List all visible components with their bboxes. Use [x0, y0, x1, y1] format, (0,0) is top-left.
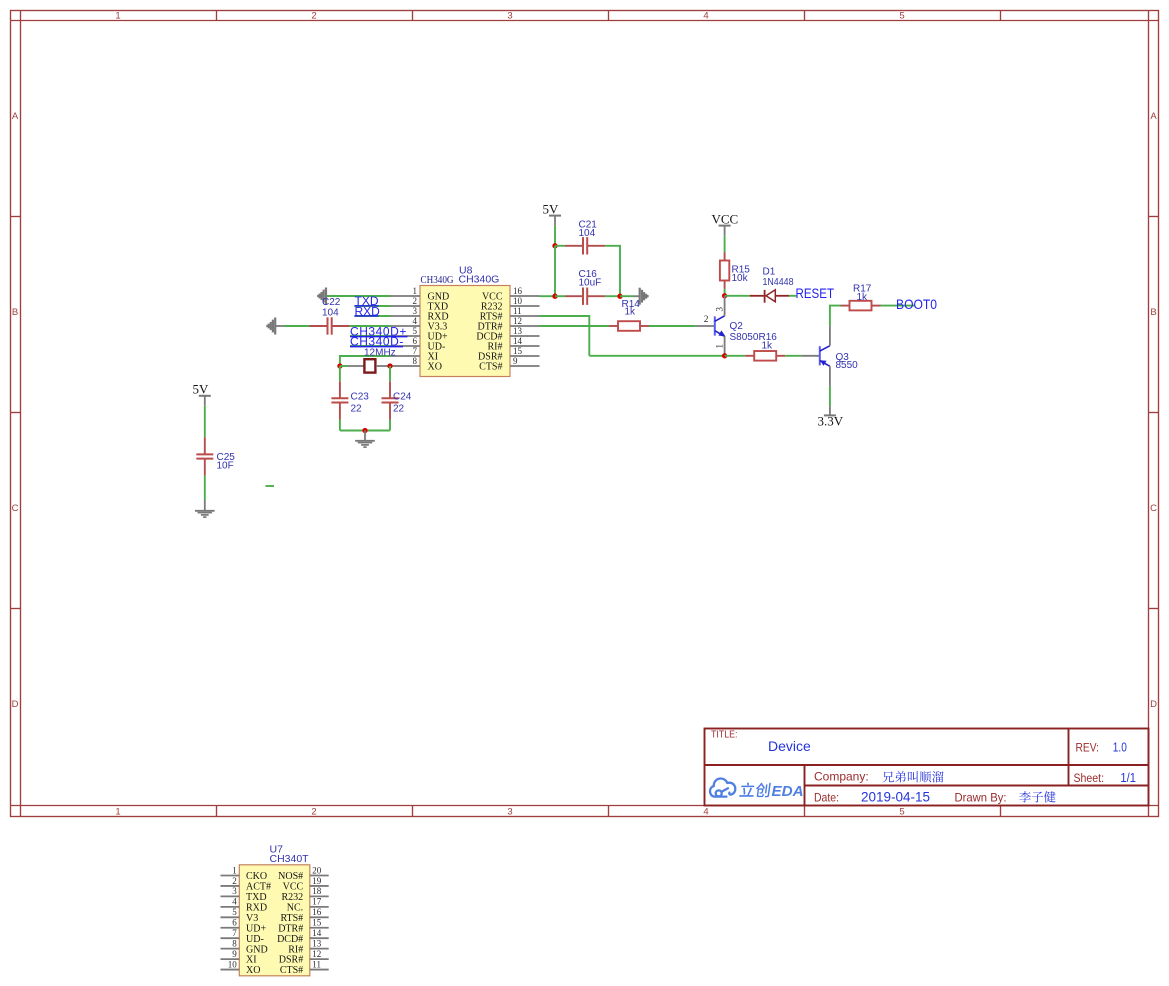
svg-text:XI: XI [246, 955, 257, 966]
wire crystal-left stub [340, 365, 348, 367]
svg-text:10F: 10F [217, 461, 234, 472]
wire C21 left [555, 245, 565, 247]
U7 pin 8 (GND) [221, 938, 268, 955]
svg-text:3: 3 [413, 306, 418, 316]
U8 pin 15 (DSR#) [478, 346, 539, 363]
svg-text:VCC: VCC [283, 882, 304, 893]
ground (C25) [195, 500, 215, 517]
svg-text:1: 1 [413, 286, 418, 296]
net label CH340D+ [350, 324, 408, 338]
wire pin7 XI to crystal-left node [340, 356, 391, 366]
svg-text:10: 10 [513, 296, 523, 306]
wire R15 to junction [724, 289, 726, 296]
wire C22 to pin4 [350, 325, 391, 327]
capacitor C24 [382, 381, 399, 419]
U7 pin 10 (XO) [221, 959, 261, 976]
svg-text:7: 7 [232, 928, 237, 938]
svg-text:10uF: 10uF [579, 278, 602, 289]
svg-text:RXD: RXD [246, 902, 267, 913]
U7 pin 2 (ACT#) [221, 876, 272, 893]
ground arrow (caps right) [634, 288, 648, 305]
svg-text:2: 2 [311, 10, 316, 21]
svg-text:UD-: UD- [246, 934, 264, 945]
wire CH340D- stub [350, 345, 391, 347]
svg-text:3: 3 [507, 806, 512, 817]
svg-text:DSR#: DSR# [279, 955, 303, 966]
IC U7 CH340T body [239, 865, 309, 976]
U7 pin 6 (UD+) [221, 918, 267, 935]
svg-text:17: 17 [312, 897, 322, 907]
ground arrow (C22 left) [267, 318, 284, 335]
resistor R15 [720, 252, 729, 289]
svg-text:2: 2 [311, 806, 316, 817]
capacitor C16 [565, 288, 605, 305]
svg-text:2: 2 [232, 876, 237, 886]
svg-text:Device: Device [768, 738, 811, 754]
wire pin1 GND net [326, 295, 391, 297]
svg-text:RTS#: RTS# [280, 913, 303, 924]
svg-text:5V: 5V [543, 202, 560, 217]
svg-text:CH340G: CH340G [421, 275, 454, 286]
wire C24 bottom [389, 420, 391, 431]
U7 pin 19 (VCC) [283, 876, 329, 893]
svg-text:CH340G: CH340G [459, 273, 500, 285]
wire C24 top [389, 366, 391, 381]
wire R14 to Q2 base [649, 325, 695, 327]
svg-text:XO: XO [246, 965, 260, 976]
U8 pin 11 (RTS#) [480, 306, 540, 323]
U7 pin 14 (DCD#) [277, 928, 329, 945]
svg-text:11: 11 [513, 306, 522, 316]
junction C16/C21 right [617, 294, 622, 299]
stray wire fragment [266, 485, 275, 487]
svg-text:1: 1 [115, 806, 120, 817]
svg-text:C: C [12, 503, 19, 514]
wire R17 to BOOT0 [881, 305, 915, 307]
svg-text:20: 20 [312, 865, 322, 875]
wire crystal ground rail [340, 430, 390, 432]
capacitor C25 [196, 437, 213, 475]
svg-text:16: 16 [513, 286, 523, 296]
svg-text:6: 6 [413, 336, 418, 346]
svg-text:2019-04-15: 2019-04-15 [861, 790, 930, 805]
resistor R16 [745, 351, 785, 361]
svg-text:TXD: TXD [246, 892, 267, 903]
svg-text:10: 10 [228, 959, 238, 969]
svg-text:4: 4 [703, 806, 708, 817]
wire RXD stub [355, 315, 391, 317]
svg-text:1: 1 [115, 10, 120, 21]
junction crystal-right (pin8 XO) [387, 363, 392, 368]
svg-text:1k: 1k [857, 292, 869, 303]
U7 pin 15 (DTR#) [278, 918, 329, 935]
logo text 立创EDA [739, 783, 755, 797]
svg-text:EDA: EDA [772, 783, 804, 800]
U7 pin 17 (NC.) [287, 897, 329, 914]
wire TXD stub [355, 305, 391, 307]
svg-text:2: 2 [413, 296, 418, 306]
capacitor C21 [565, 237, 605, 254]
svg-text:5: 5 [413, 326, 418, 336]
svg-text:CH340T: CH340T [270, 853, 310, 865]
svg-text:5V: 5V [193, 382, 210, 397]
junction 5V / C21 [552, 243, 557, 248]
svg-text:DCD#: DCD# [277, 934, 303, 945]
svg-text:D: D [1150, 699, 1157, 710]
junction Q2 emitter [722, 353, 727, 358]
wire pin12 DTR# to R14 [540, 325, 610, 327]
U7 pin 13 (RI#) [288, 938, 329, 955]
wire D1 to RESET [789, 295, 796, 297]
wire R16 to Q3 base [785, 355, 801, 357]
svg-text:XO: XO [428, 362, 442, 373]
title block [705, 729, 1149, 806]
svg-text:CKO: CKO [246, 871, 267, 882]
svg-text:A: A [12, 111, 19, 122]
wire 5V node down to VCC rail [554, 246, 556, 296]
svg-text:CTS#: CTS# [280, 965, 303, 976]
svg-text:12MHz: 12MHz [364, 347, 396, 358]
svg-text:104: 104 [579, 228, 596, 239]
diode D1 1N4448 [750, 290, 789, 303]
svg-text:14: 14 [513, 336, 523, 346]
svg-text:7: 7 [413, 346, 418, 356]
svg-text:C: C [1150, 503, 1157, 514]
U8 pin 4 (V3.3) [391, 316, 448, 333]
svg-text:1: 1 [232, 865, 237, 875]
svg-text:12: 12 [312, 949, 321, 959]
U8 pin 10 (R232) [481, 296, 540, 313]
svg-text:GND: GND [246, 944, 268, 955]
svg-text:9: 9 [513, 356, 518, 366]
svg-text:NC.: NC. [287, 902, 303, 913]
wire emitter rail [589, 355, 724, 357]
ground arrow (pin1 GND) [318, 288, 326, 305]
wire pin16 VCC to 5V node [540, 295, 556, 297]
svg-text:UD+: UD+ [246, 923, 266, 934]
U7 pin 1 (CKO) [221, 865, 268, 882]
svg-text:TITLE:: TITLE: [711, 730, 738, 741]
svg-text:RESET: RESET [796, 285, 835, 301]
svg-text:12: 12 [513, 316, 522, 326]
wire pin11 RTS# down to emitter rail [540, 316, 590, 356]
junction R15/D1/Q2 [722, 293, 727, 298]
svg-text:BOOT0: BOOT0 [896, 296, 937, 312]
svg-text:13: 13 [312, 938, 322, 948]
U7 pin 18 (R232) [282, 886, 329, 903]
U8 pin 16 (VCC) [482, 286, 540, 303]
svg-text:4: 4 [413, 316, 418, 326]
svg-text:Q2: Q2 [730, 321, 744, 332]
junction crystal-left [337, 363, 342, 368]
svg-text:2: 2 [704, 315, 709, 325]
wire 5V down to C21 node [554, 226, 556, 246]
U8 pin 7 (XI) [391, 346, 439, 363]
U7 pin 16 (RTS#) [280, 907, 328, 924]
svg-text:A: A [1150, 111, 1157, 122]
resistor R14 [609, 321, 649, 331]
transistor Q2 S8050 [695, 296, 725, 356]
svg-text:13: 13 [513, 326, 523, 336]
ground (crystal) [355, 431, 375, 448]
U8 pin 13 (DCD#) [476, 326, 539, 343]
svg-text:5: 5 [232, 907, 237, 917]
company name 兄弟叫顺溜 [883, 771, 944, 782]
svg-text:VCC: VCC [712, 212, 739, 227]
power VCC [712, 212, 739, 236]
svg-text:Drawn By:: Drawn By: [955, 791, 1007, 805]
svg-text:22: 22 [351, 404, 363, 415]
U8 pin 14 (RI#) [488, 336, 540, 353]
svg-text:8550: 8550 [836, 360, 859, 371]
wire junction to R16 [725, 355, 746, 357]
svg-text:15: 15 [312, 918, 322, 928]
wire Q3 collector up to R17 row [830, 306, 841, 326]
U8 pin 2 (TXD) [391, 296, 449, 313]
drawn-by name 李子健 [1019, 791, 1055, 802]
svg-text:C23: C23 [351, 392, 370, 403]
logo LCEDA cloud [710, 779, 735, 797]
IC U8 CH340G body [420, 286, 510, 377]
U8 pin 1 (GND) [391, 286, 450, 303]
svg-text:1N4448: 1N4448 [763, 277, 794, 288]
capacitor C22 [310, 317, 350, 334]
svg-text:D1: D1 [763, 267, 776, 278]
svg-text:9: 9 [232, 949, 237, 959]
wire VCC to R15 [724, 236, 726, 252]
svg-text:REV:: REV: [1076, 743, 1100, 755]
transistor Q3 8550 [801, 326, 830, 387]
svg-text:V3: V3 [246, 913, 258, 924]
svg-text:5: 5 [899, 10, 904, 21]
wire C23 bottom [339, 420, 341, 431]
svg-text:3: 3 [715, 307, 725, 312]
U8 pin 3 (RXD) [391, 306, 449, 323]
svg-text:1k: 1k [625, 306, 637, 317]
U7 pin 20 (NOS#) [278, 865, 329, 882]
wire C22 left [285, 325, 310, 327]
svg-text:1.0: 1.0 [1113, 740, 1127, 755]
svg-text:18: 18 [312, 886, 322, 896]
svg-text:B: B [1150, 307, 1156, 318]
net label RXD [354, 304, 380, 318]
wire junction to D1 [725, 295, 750, 297]
power 5V (left) [193, 382, 211, 406]
svg-text:NOS#: NOS# [278, 871, 303, 882]
svg-text:19: 19 [312, 876, 322, 886]
svg-text:1/1: 1/1 [1120, 770, 1136, 785]
svg-text:6: 6 [232, 918, 237, 928]
U7 pin 9 (XI) [221, 949, 257, 966]
wire C16 right [605, 295, 620, 297]
capacitor C23 [331, 381, 348, 419]
wire Q3 emitter down [829, 387, 831, 407]
U7 pin 5 (V3) [221, 907, 259, 924]
U7 pin 4 (RXD) [221, 897, 268, 914]
U8 pin 9 (CTS#) [479, 356, 539, 373]
svg-text:16: 16 [312, 907, 322, 917]
svg-text:S8050: S8050 [730, 332, 759, 343]
svg-text:ACT#: ACT# [246, 882, 271, 893]
svg-text:10k: 10k [732, 273, 749, 284]
svg-text:104: 104 [322, 307, 339, 318]
svg-text:Date:: Date: [814, 791, 839, 805]
svg-text:22: 22 [393, 404, 405, 415]
svg-text:Company:: Company: [814, 770, 869, 784]
svg-text:D: D [12, 699, 19, 710]
svg-text:C24: C24 [393, 392, 412, 403]
svg-text:14: 14 [312, 928, 322, 938]
wire CH340D+ stub [350, 335, 391, 337]
svg-text:Sheet:: Sheet: [1074, 773, 1105, 785]
U8 pin 6 (UD-) [391, 336, 446, 353]
U8 pin 8 (XO) [391, 356, 442, 373]
junction VCC rail [552, 294, 557, 299]
wire C21 right to corner [605, 246, 620, 296]
resistor R17 [841, 301, 881, 311]
svg-text:11: 11 [312, 959, 321, 969]
U7 pin 7 (UD-) [221, 928, 264, 945]
svg-text:1k: 1k [762, 340, 774, 351]
wire C25 to ground [204, 476, 206, 500]
svg-text:3: 3 [507, 10, 512, 21]
svg-text:4: 4 [232, 897, 237, 907]
svg-text:3: 3 [232, 886, 237, 896]
wire 5V to C25 [204, 405, 206, 437]
U7 pin 11 (CTS#) [280, 959, 329, 976]
net label TXD [354, 294, 378, 308]
svg-text:1: 1 [715, 344, 725, 349]
U8 pin 12 (DTR#) [478, 316, 540, 333]
svg-text:8: 8 [413, 356, 418, 366]
U7 pin 12 (DSR#) [279, 949, 329, 966]
svg-text:15: 15 [513, 346, 523, 356]
svg-text:8: 8 [232, 938, 237, 948]
net label CH340D- [350, 334, 404, 348]
power 5V (top) [543, 202, 562, 226]
svg-text:DTR#: DTR# [278, 923, 303, 934]
svg-text:RI#: RI# [288, 944, 303, 955]
junction crystal ground [362, 428, 367, 433]
svg-text:4: 4 [703, 10, 708, 21]
power 3.3V [818, 406, 844, 428]
svg-text:R232: R232 [282, 892, 304, 903]
U8 pin 5 (UD+) [391, 326, 448, 343]
svg-text:5: 5 [899, 806, 904, 817]
svg-text:3.3V: 3.3V [818, 413, 844, 428]
wire C23 top [339, 366, 341, 381]
wire to ground arrow [620, 295, 634, 297]
svg-text:B: B [12, 307, 18, 318]
wire VCC rail to C16 [555, 295, 565, 297]
crystal X1 12MHz [348, 359, 391, 372]
U7 pin 3 (TXD) [221, 886, 267, 903]
svg-text:CTS#: CTS# [479, 362, 502, 373]
